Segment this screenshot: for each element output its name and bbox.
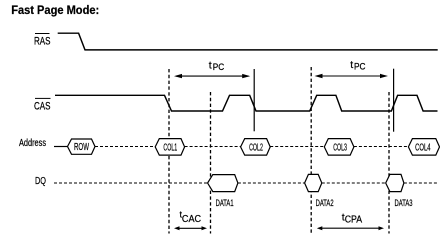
svg-text:COL2: COL2: [249, 142, 263, 153]
svg-text:COL4: COL4: [415, 142, 431, 153]
svg-text:RAS: RAS: [34, 36, 51, 48]
svg-text:PC: PC: [354, 61, 366, 71]
svg-text:t: t: [209, 60, 212, 72]
svg-text:Fast Page Mode:: Fast Page Mode:: [11, 3, 99, 17]
svg-text:DATA1: DATA1: [216, 198, 234, 208]
svg-text:ROW: ROW: [74, 142, 89, 153]
svg-text:COL1: COL1: [163, 142, 177, 153]
svg-text:PC: PC: [213, 62, 225, 72]
svg-text:CPA: CPA: [345, 215, 363, 226]
svg-text:CAS: CAS: [34, 100, 51, 112]
svg-text:CAC: CAC: [182, 213, 202, 225]
svg-text:t: t: [350, 59, 353, 71]
svg-text:DQ: DQ: [35, 176, 46, 187]
svg-text:DATA3: DATA3: [395, 198, 413, 208]
svg-text:COL3: COL3: [333, 142, 347, 153]
svg-text:Address: Address: [19, 138, 46, 149]
svg-text:DATA2: DATA2: [316, 198, 334, 208]
